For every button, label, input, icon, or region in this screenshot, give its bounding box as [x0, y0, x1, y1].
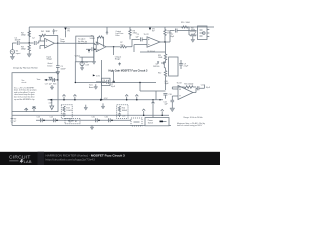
svg-text:High Gain MOSFET Fuzz Circuit: High Gain MOSFET Fuzz Circuit 3 — [109, 69, 149, 72]
wire jack link — [181, 27, 191, 35]
wire left branch vertical — [28, 27, 30, 43]
svg-text:Tone: Tone — [37, 79, 41, 81]
node power arrow — [63, 95, 66, 101]
op-amp U1 — [45, 38, 55, 48]
ground symbol up — [32, 107, 36, 112]
ground — [170, 108, 175, 112]
node U1 output junction — [57, 43, 58, 44]
ground — [50, 100, 54, 110]
resistor R15 — [184, 83, 196, 88]
wire U4 top — [172, 87, 184, 89]
svg-text:R15 100kΩ: R15 100kΩ — [184, 83, 194, 85]
node power arrow 9V — [53, 29, 59, 35]
text output stage — [115, 55, 122, 60]
svg-text:http://circuitlab.com/c/kgqy2p: http://circuitlab.com/c/kgqy2p/73e43 — [46, 158, 96, 162]
wire output stage drop — [113, 47, 115, 55]
svg-text:10kΩ: 10kΩ — [158, 57, 163, 59]
ground — [10, 54, 14, 60]
wire bottom rail A — [12, 114, 169, 116]
ground symbol up — [24, 108, 28, 111]
svg-text:LAB: LAB — [24, 159, 32, 164]
svg-text:C16: C16 — [105, 117, 108, 119]
node Vref arrow — [93, 74, 101, 77]
svg-text:2N7000: 2N7000 — [153, 66, 159, 68]
svg-text:R10: R10 — [181, 22, 184, 24]
wire U3 bottom input — [134, 45, 147, 52]
op-amp U2 — [96, 42, 106, 52]
text input stage — [47, 55, 53, 60]
footer bar — [0, 152, 220, 165]
capacitor C7 — [170, 29, 181, 39]
node arrow down — [157, 62, 159, 65]
svg-text:Drive: Drive — [48, 65, 54, 68]
svg-text:Range: 10 Hz to 20 kHz: Range: 10 Hz to 20 kHz — [184, 116, 203, 119]
resistor R11 — [158, 54, 167, 60]
wire U2 feedback — [98, 37, 104, 47]
footer text — [46, 154, 126, 162]
svg-text:1MΩ: 1MΩ — [21, 35, 26, 37]
wire U4 bottom input — [172, 96, 178, 100]
capacitor C2 — [32, 37, 36, 45]
wire mid vertical — [102, 60, 121, 100]
capacitor C10 — [163, 81, 171, 99]
capacitor C5 — [136, 34, 148, 41]
svg-text:C8 100nF: C8 100nF — [147, 51, 156, 53]
node power arrow — [106, 27, 108, 35]
box section stage2 — [76, 36, 94, 62]
node junction — [159, 99, 160, 100]
wire U1 feedback — [39, 35, 58, 43]
svg-text:input: input — [16, 52, 21, 55]
node V6 arrow right — [100, 98, 108, 101]
svg-text:C13: C13 — [37, 117, 40, 119]
output jack J1 — [198, 26, 210, 40]
node V5 arrow left — [49, 99, 53, 105]
resistor R9 — [164, 27, 172, 42]
node power arrow — [152, 100, 155, 118]
node junction — [29, 42, 30, 43]
ground — [94, 84, 98, 89]
svg-text:V7: V7 — [14, 121, 16, 123]
resistor R2 — [21, 31, 30, 37]
svg-text:C17 1µF: C17 1µF — [45, 84, 53, 86]
wire mosfet bottom — [140, 79, 166, 100]
wire branch top — [140, 42, 166, 54]
svg-text:circuit: circuit — [22, 81, 27, 84]
svg-text:100nF: 100nF — [15, 40, 22, 42]
ground — [90, 125, 94, 129]
box power switch — [145, 118, 169, 126]
node power arrow — [73, 95, 76, 101]
potentiometer volume — [191, 28, 197, 36]
wire mid rail 4.5V — [48, 99, 163, 101]
node junction — [101, 82, 102, 83]
svg-text:up and the MOSFETs clip.: up and the MOSFETs clip. — [14, 98, 35, 101]
capacitor C13 — [37, 117, 45, 123]
source V1 input — [10, 43, 21, 55]
svg-text:Stage: Stage — [47, 58, 53, 61]
box feedback — [169, 57, 178, 76]
label C8 — [147, 51, 156, 53]
svg-text:100kΩ: 100kΩ — [90, 38, 96, 40]
text notes right — [177, 116, 205, 127]
svg-text:C14: C14 — [50, 117, 53, 119]
svg-text:100kΩ: 100kΩ — [66, 110, 72, 112]
wire bottom rail B — [12, 124, 171, 126]
box bias left — [61, 105, 72, 119]
svg-text:C10: C10 — [169, 94, 172, 96]
resistor R12 — [158, 71, 167, 79]
capacitor C17 — [45, 77, 56, 85]
wire bias rail — [45, 79, 58, 81]
svg-text:itself w/ control tuning just: itself w/ control tuning just 40%. — [177, 124, 203, 127]
svg-text:Voffset: Voffset — [75, 54, 81, 57]
svg-text:C15: C15 — [92, 117, 95, 119]
node junction — [152, 99, 153, 100]
text output low pass — [116, 30, 124, 37]
svg-text:Design by Harrison Richter: Design by Harrison Richter — [13, 67, 38, 70]
ground — [27, 51, 31, 57]
node junction square — [111, 81, 116, 88]
text note stage2 — [78, 38, 87, 45]
capacitor C3 — [56, 66, 66, 72]
node power arrow — [142, 109, 145, 116]
svg-text:C11: C11 — [201, 84, 204, 86]
svg-text:C5 and R5: C5 and R5 — [78, 43, 87, 45]
wire U3 output — [160, 31, 175, 43]
svg-text:1MΩ: 1MΩ — [46, 31, 51, 33]
source V4 bias — [75, 54, 94, 66]
capacitor C14 — [50, 117, 58, 123]
capacitor C16 — [105, 117, 113, 123]
node power arrow — [161, 109, 164, 116]
node junction — [113, 46, 114, 47]
svg-text:10kΩ: 10kΩ — [186, 22, 191, 24]
wire input horizontal — [12, 41, 44, 43]
capacitor C11 — [197, 84, 211, 90]
resistor R8 — [129, 27, 138, 39]
svg-text:B1: B1 — [75, 121, 77, 123]
svg-text:R16: R16 — [53, 84, 56, 86]
svg-text:100nF: 100nF — [61, 68, 67, 70]
ground — [80, 66, 84, 71]
wire to C3 cap — [128, 39, 140, 46]
transistor Q1 — [153, 60, 166, 71]
node junction — [164, 41, 165, 42]
op-amp U3 — [144, 34, 161, 47]
wire U2 output — [106, 46, 120, 48]
svg-text:Stage: Stage — [115, 58, 121, 61]
svg-text:47kΩ: 47kΩ — [133, 33, 138, 35]
resistor R4 — [41, 31, 51, 37]
node junction — [139, 82, 140, 83]
ground — [101, 103, 105, 109]
resistor R7 — [120, 42, 128, 48]
source V7 battery — [11, 112, 17, 126]
wire top rail — [29, 26, 214, 28]
capacitor C9 — [179, 60, 189, 69]
svg-text:C18: C18 — [122, 115, 125, 117]
note box annotation — [12, 73, 58, 112]
text tone label — [60, 39, 65, 43]
svg-text:100kΩ: 100kΩ — [122, 110, 128, 112]
resistor R5 — [90, 36, 104, 40]
potentiometer gain chain — [48, 43, 58, 67]
node junction — [57, 79, 58, 80]
capacitor C15 — [92, 117, 100, 123]
node V2 power arrow — [64, 28, 70, 38]
wire U1 to U2 — [58, 43, 96, 44]
text tone boost — [89, 85, 94, 89]
svg-text:Boost: Boost — [89, 86, 94, 89]
node V3 power arrow — [149, 28, 156, 33]
svg-text:TL072: TL072 — [144, 34, 149, 36]
ground marker — [56, 72, 59, 80]
svg-text:Stage: Stage — [60, 40, 65, 43]
box bias right — [117, 105, 128, 119]
node junction — [75, 82, 76, 83]
ground — [84, 105, 88, 111]
dashed box charge — [131, 118, 142, 126]
ground — [92, 57, 96, 64]
wire U4 output — [193, 88, 197, 92]
ground — [191, 36, 195, 42]
node power arrow — [135, 95, 138, 101]
op-amp U4 — [177, 82, 194, 99]
node power arrow — [125, 95, 128, 101]
wire component row — [36, 119, 131, 121]
ground — [50, 85, 54, 90]
capacitor C1 — [15, 37, 22, 45]
svg-text:TL072: TL072 — [177, 82, 182, 84]
logo CircuitLab — [9, 154, 32, 164]
resistor R10 — [181, 22, 190, 28]
dashed box battery — [65, 118, 80, 123]
svg-text:Switch: Switch — [148, 121, 153, 124]
resistor R3 — [21, 43, 30, 51]
svg-text:1MΩ: 1MΩ — [21, 49, 26, 51]
capacitor C12 — [164, 100, 175, 108]
wire U1 inputs — [40, 46, 45, 49]
capacitor C4 — [86, 47, 96, 57]
node power arrow — [88, 49, 90, 53]
svg-text:Filter: Filter — [116, 34, 120, 37]
capacitor C6 — [96, 78, 110, 85]
svg-text:R12: R12 — [158, 72, 161, 74]
wire bias rail — [75, 62, 156, 83]
node arrow left — [44, 79, 46, 81]
